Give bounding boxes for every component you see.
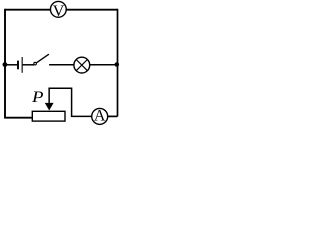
wire battery branch xyxy=(5,64,17,66)
slider arrow head xyxy=(45,103,54,111)
battery cell xyxy=(18,57,22,73)
node junction right xyxy=(115,62,120,67)
svg-text:P: P xyxy=(31,89,44,106)
wire lamp to right side xyxy=(90,64,117,66)
wire ammeter to right side xyxy=(108,115,118,117)
lamp xyxy=(74,57,90,73)
wire switch to lamp xyxy=(49,64,74,66)
wire top side xyxy=(5,9,118,11)
ammeter A xyxy=(92,108,108,125)
wire rheostat slider arm xyxy=(49,88,92,116)
wire left side xyxy=(4,9,6,118)
svg-text:V: V xyxy=(53,3,65,20)
rheostat body xyxy=(32,111,65,121)
wire right side xyxy=(117,9,119,117)
svg-text:A: A xyxy=(94,108,106,125)
voltmeter V xyxy=(50,1,66,20)
wire battery to switch xyxy=(23,64,34,66)
wire bottom side xyxy=(4,117,32,119)
switch xyxy=(34,54,49,65)
node junction left xyxy=(3,62,8,67)
